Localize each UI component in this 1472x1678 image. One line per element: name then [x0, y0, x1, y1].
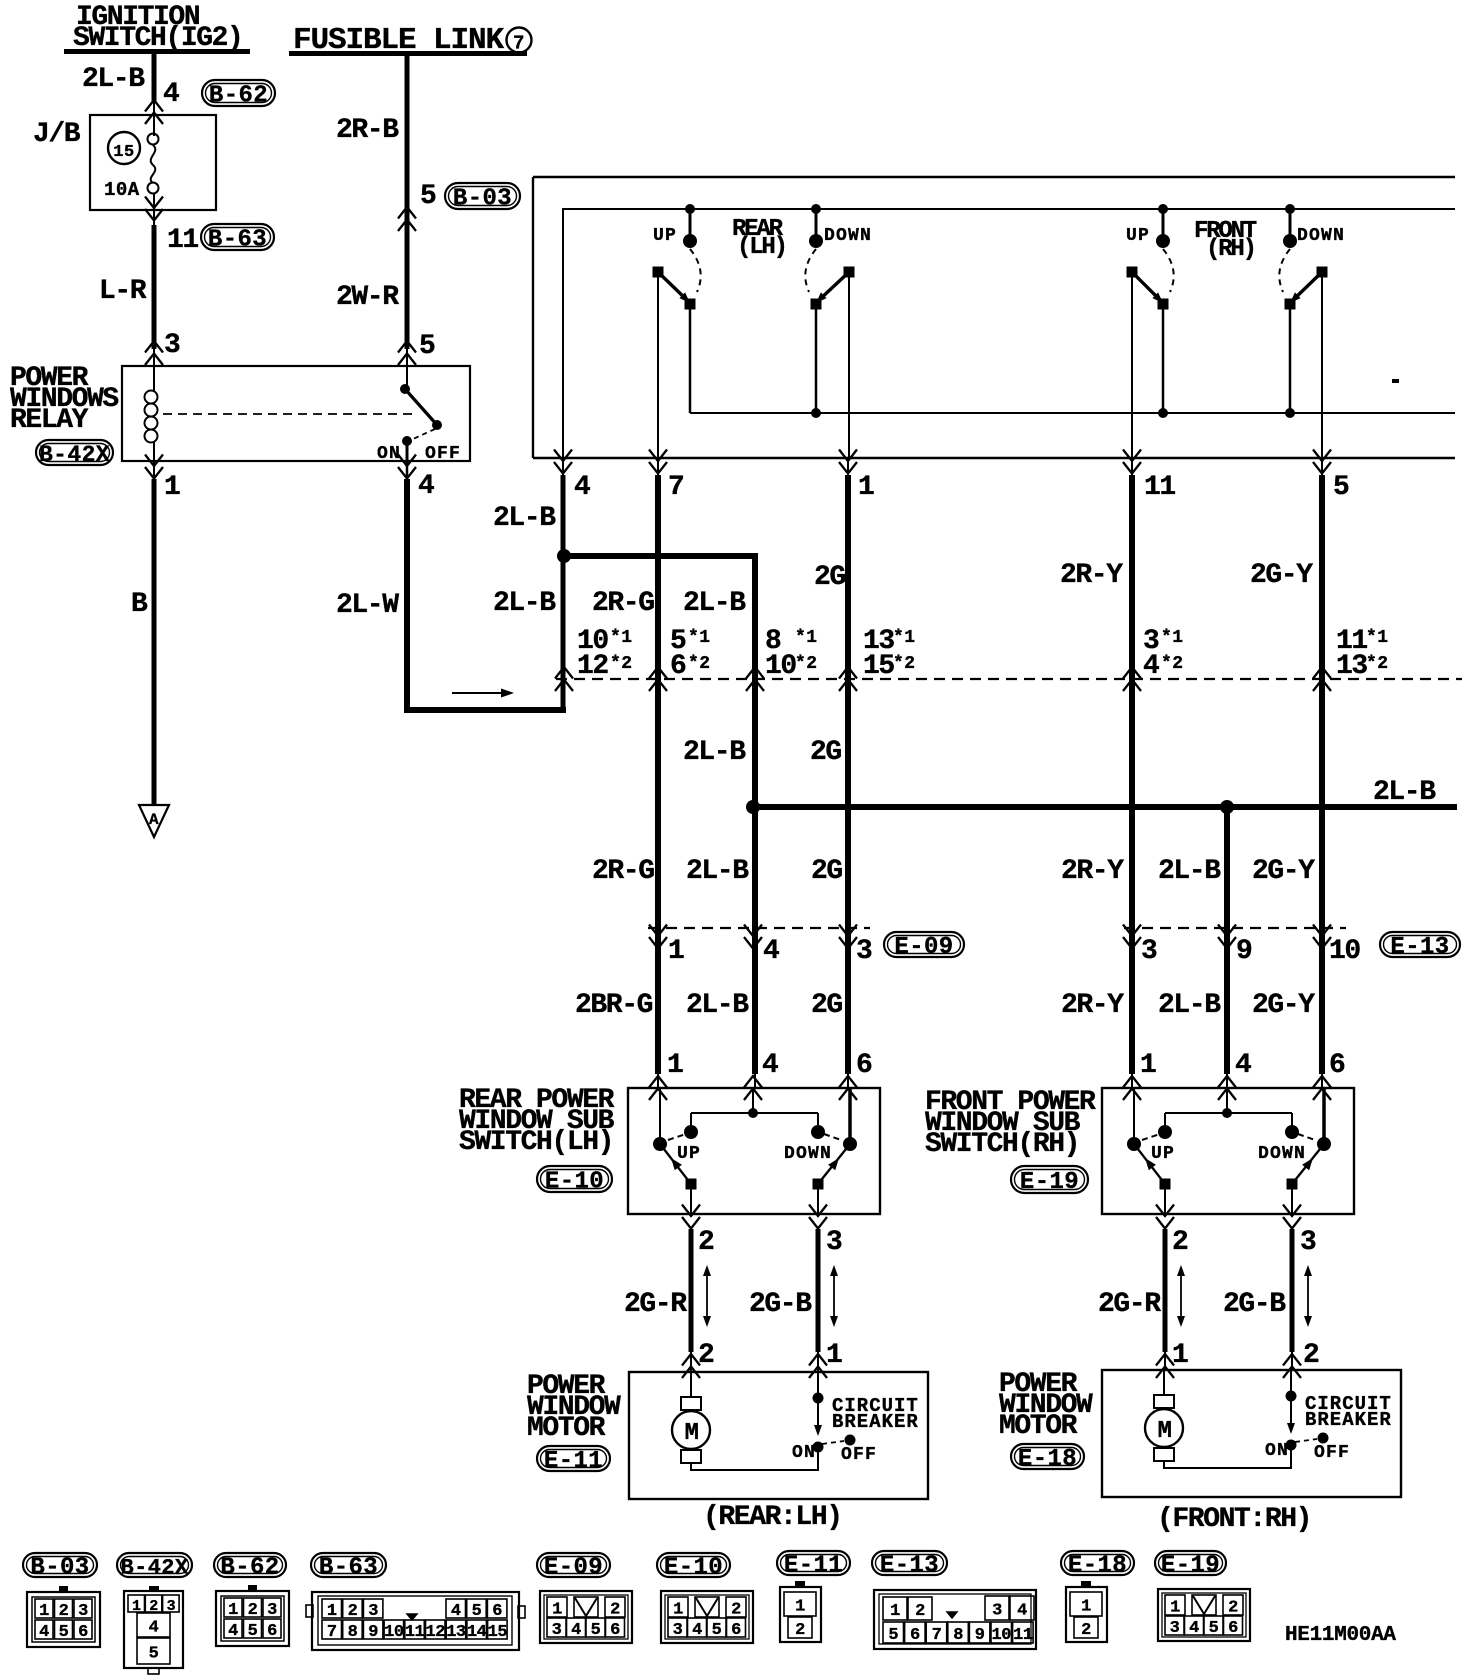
svg-text:15: 15: [863, 651, 894, 682]
svg-text:L-R: L-R: [99, 276, 147, 307]
svg-text:15: 15: [488, 1623, 508, 1642]
svg-text:6: 6: [1228, 1619, 1238, 1638]
svg-text:MOTOR: MOTOR: [999, 1411, 1078, 1442]
svg-text:5: 5: [59, 1623, 69, 1642]
svg-text:5: 5: [1333, 472, 1349, 503]
svg-text:2G: 2G: [811, 990, 842, 1021]
svg-text:E-18: E-18: [1068, 1553, 1127, 1580]
svg-text:1: 1: [826, 1340, 842, 1371]
svg-text:6: 6: [910, 1626, 920, 1645]
svg-text:1: 1: [668, 936, 684, 967]
svg-text:2R-G: 2R-G: [592, 856, 654, 887]
svg-text:6: 6: [1329, 1050, 1345, 1081]
svg-text:4: 4: [228, 1622, 238, 1641]
svg-text:13: 13: [1336, 651, 1367, 682]
svg-text:(RH): (RH): [1206, 236, 1255, 263]
svg-text:6: 6: [78, 1623, 88, 1642]
svg-text:2: 2: [1303, 1340, 1319, 1371]
svg-text:OFF: OFF: [425, 444, 461, 464]
svg-text:2G-Y: 2G-Y: [1250, 560, 1313, 591]
svg-text:*2: *2: [1366, 654, 1389, 674]
svg-text:SWITCH(LH): SWITCH(LH): [459, 1127, 613, 1158]
svg-text:2: 2: [610, 1601, 620, 1620]
svg-text:*2: *2: [1161, 654, 1184, 674]
svg-text:*2: *2: [893, 654, 916, 674]
svg-text:2: 2: [698, 1340, 714, 1371]
svg-text:2L-B: 2L-B: [686, 856, 749, 887]
svg-text:ON: ON: [1265, 1441, 1289, 1461]
svg-text:2W-R: 2W-R: [336, 282, 399, 313]
svg-text:DOWN: DOWN: [824, 226, 872, 246]
svg-text:*1: *1: [893, 628, 916, 648]
svg-text:2G: 2G: [811, 856, 842, 887]
svg-text:*1: *1: [795, 628, 818, 648]
svg-text:3: 3: [673, 1621, 683, 1640]
svg-text:1: 1: [39, 1602, 49, 1621]
svg-text:7: 7: [327, 1623, 337, 1642]
svg-text:4: 4: [571, 1621, 581, 1640]
svg-text:RELAY: RELAY: [10, 405, 89, 436]
svg-text:6: 6: [492, 1602, 502, 1621]
svg-text:10: 10: [765, 651, 796, 682]
svg-text:E-19: E-19: [1020, 1169, 1079, 1196]
svg-text:BREAKER: BREAKER: [832, 1411, 919, 1433]
svg-text:12: 12: [426, 1623, 446, 1642]
svg-text:2R-Y: 2R-Y: [1061, 990, 1124, 1021]
svg-text:(LH): (LH): [737, 234, 786, 261]
svg-text:3: 3: [78, 1602, 88, 1621]
svg-text:5: 5: [248, 1622, 258, 1641]
svg-text:3: 3: [826, 1227, 842, 1258]
svg-text:B-03: B-03: [30, 1555, 89, 1582]
svg-text:5: 5: [472, 1602, 482, 1621]
svg-text:4: 4: [692, 1621, 702, 1640]
svg-text:E-18: E-18: [1018, 1446, 1077, 1473]
svg-text:9: 9: [1236, 936, 1252, 967]
svg-text:*1: *1: [610, 628, 633, 648]
svg-text:B-63: B-63: [208, 227, 267, 254]
svg-text:E-19: E-19: [1161, 1553, 1220, 1580]
svg-text:B-62: B-62: [209, 83, 268, 110]
svg-text:UP: UP: [653, 226, 677, 246]
svg-text:2L-B: 2L-B: [82, 64, 145, 95]
svg-text:5: 5: [149, 1645, 159, 1664]
svg-text:4: 4: [39, 1623, 49, 1642]
svg-text:3: 3: [267, 1601, 277, 1620]
svg-text:4: 4: [1017, 1602, 1027, 1621]
svg-text:2R-Y: 2R-Y: [1061, 856, 1124, 887]
svg-text:1: 1: [228, 1601, 238, 1620]
svg-text:2L-B: 2L-B: [493, 503, 556, 534]
svg-text:2: 2: [248, 1601, 258, 1620]
svg-text:(REAR:LH): (REAR:LH): [703, 1502, 842, 1533]
svg-text:J/B: J/B: [33, 119, 81, 150]
svg-text:HE11M00AA: HE11M00AA: [1285, 1624, 1396, 1647]
svg-text:10: 10: [384, 1623, 404, 1642]
svg-text:DOWN: DOWN: [784, 1144, 832, 1164]
svg-text:4: 4: [1235, 1050, 1251, 1081]
svg-text:UP: UP: [1126, 226, 1150, 246]
svg-text:5: 5: [591, 1621, 601, 1640]
svg-text:5: 5: [888, 1626, 898, 1645]
svg-text:3: 3: [992, 1602, 1002, 1621]
svg-text:UP: UP: [1151, 1144, 1175, 1164]
svg-text:1: 1: [858, 472, 874, 503]
svg-text:3: 3: [1170, 1619, 1180, 1638]
svg-text:B: B: [131, 589, 148, 620]
svg-text:B-42X: B-42X: [39, 442, 110, 468]
svg-text:2G-Y: 2G-Y: [1252, 990, 1315, 1021]
svg-text:11: 11: [405, 1623, 425, 1642]
svg-text:10: 10: [992, 1626, 1012, 1645]
svg-text:2: 2: [59, 1602, 69, 1621]
svg-text:2: 2: [795, 1621, 805, 1640]
svg-text:4: 4: [763, 936, 779, 967]
svg-text:4: 4: [574, 472, 590, 503]
svg-text:2: 2: [915, 1602, 925, 1621]
svg-text:2BR-G: 2BR-G: [575, 990, 653, 1021]
svg-text:B-63: B-63: [319, 1555, 378, 1582]
svg-text:2G-R: 2G-R: [624, 1289, 687, 1320]
svg-text:4: 4: [762, 1050, 778, 1081]
svg-text:ON: ON: [377, 444, 401, 464]
svg-text:*1: *1: [688, 628, 711, 648]
svg-text:E-09: E-09: [894, 934, 953, 961]
svg-text:6: 6: [267, 1622, 277, 1641]
svg-text:10A: 10A: [104, 179, 140, 201]
svg-text:*2: *2: [688, 654, 711, 674]
svg-text:4: 4: [1189, 1619, 1199, 1638]
svg-text:2R-G: 2R-G: [592, 588, 654, 619]
svg-text:3: 3: [1300, 1227, 1316, 1258]
svg-text:5: 5: [1209, 1619, 1219, 1638]
svg-text:8: 8: [953, 1626, 963, 1645]
svg-text:2: 2: [698, 1227, 714, 1258]
svg-text:11: 11: [167, 225, 198, 256]
svg-text:4: 4: [451, 1602, 461, 1621]
svg-text:B-42X: B-42X: [120, 1556, 188, 1581]
svg-text:5: 5: [712, 1621, 722, 1640]
svg-text:2L-B: 2L-B: [493, 588, 556, 619]
svg-text:15: 15: [113, 143, 134, 162]
svg-text:*1: *1: [1161, 628, 1184, 648]
svg-text:6: 6: [670, 651, 686, 682]
svg-text:4: 4: [418, 471, 434, 502]
svg-text:2: 2: [1081, 1621, 1091, 1640]
svg-text:3: 3: [552, 1621, 562, 1640]
svg-text:2G: 2G: [814, 562, 845, 593]
svg-text:3: 3: [856, 936, 872, 967]
svg-text:1: 1: [1081, 1598, 1091, 1617]
svg-text:1: 1: [1140, 1050, 1156, 1081]
svg-text:OFF: OFF: [841, 1445, 877, 1465]
svg-text:1: 1: [327, 1602, 337, 1621]
svg-text:2G-R: 2G-R: [1098, 1289, 1161, 1320]
svg-text:E-10: E-10: [664, 1555, 723, 1582]
svg-text:9: 9: [975, 1626, 985, 1645]
svg-text:11: 11: [1144, 472, 1175, 503]
svg-text:2: 2: [348, 1602, 358, 1621]
svg-text:E-13: E-13: [1390, 934, 1449, 961]
svg-text:BREAKER: BREAKER: [1305, 1409, 1392, 1431]
svg-text:DOWN: DOWN: [1297, 226, 1345, 246]
svg-text:6: 6: [610, 1621, 620, 1640]
svg-text:2L-B: 2L-B: [1158, 990, 1221, 1021]
svg-text:E-13: E-13: [880, 1553, 939, 1580]
svg-text:1: 1: [552, 1601, 562, 1620]
svg-text:10: 10: [1329, 936, 1360, 967]
svg-text:2: 2: [1172, 1227, 1188, 1258]
svg-text:2G-Y: 2G-Y: [1252, 856, 1315, 887]
svg-text:8: 8: [348, 1623, 358, 1642]
svg-text:B-62: B-62: [220, 1555, 279, 1582]
svg-text:7: 7: [668, 472, 683, 503]
svg-text:2L-B: 2L-B: [1158, 856, 1221, 887]
svg-text:13: 13: [446, 1623, 466, 1642]
svg-text:2G-B: 2G-B: [749, 1289, 812, 1320]
svg-text:3: 3: [164, 330, 180, 361]
svg-text:2: 2: [731, 1601, 741, 1620]
svg-text:2L-W: 2L-W: [336, 590, 399, 621]
svg-text:2R-Y: 2R-Y: [1060, 560, 1123, 591]
svg-text:6: 6: [731, 1621, 741, 1640]
svg-text:*1: *1: [1366, 628, 1389, 648]
svg-text:2L-B: 2L-B: [683, 737, 746, 768]
svg-text:E-11: E-11: [544, 1448, 603, 1475]
svg-text:2L-B: 2L-B: [683, 588, 746, 619]
svg-text:MOTOR: MOTOR: [527, 1413, 606, 1444]
svg-text:1: 1: [667, 1050, 683, 1081]
svg-text:2: 2: [1228, 1599, 1238, 1618]
svg-text:SWITCH(RH): SWITCH(RH): [925, 1129, 1079, 1160]
svg-text:2R-B: 2R-B: [336, 115, 399, 146]
svg-text:3: 3: [1141, 936, 1157, 967]
svg-text:DOWN: DOWN: [1258, 1144, 1306, 1164]
svg-text:M: M: [684, 1420, 698, 1447]
svg-text:1: 1: [673, 1601, 683, 1620]
svg-text:1: 1: [1172, 1340, 1188, 1371]
svg-text:2G-B: 2G-B: [1223, 1289, 1286, 1320]
svg-text:E-09: E-09: [544, 1555, 603, 1582]
svg-text:*2: *2: [610, 654, 633, 674]
svg-text:(FRONT:RH): (FRONT:RH): [1157, 1504, 1311, 1535]
svg-text:1: 1: [795, 1598, 805, 1617]
svg-text:11: 11: [1013, 1626, 1033, 1645]
svg-text:6: 6: [856, 1050, 872, 1081]
svg-text:1: 1: [1170, 1599, 1180, 1618]
svg-text:B-03: B-03: [453, 186, 512, 213]
svg-text:2G: 2G: [810, 737, 841, 768]
svg-text:4: 4: [163, 79, 179, 110]
svg-text:7: 7: [932, 1626, 942, 1645]
svg-text:1: 1: [164, 472, 180, 503]
svg-text:E-10: E-10: [545, 1169, 604, 1196]
svg-text:12: 12: [577, 651, 608, 682]
svg-text:ON: ON: [792, 1443, 816, 1463]
svg-text:A: A: [149, 811, 159, 829]
svg-text:OFF: OFF: [1314, 1443, 1350, 1463]
svg-text:UP: UP: [677, 1144, 701, 1164]
svg-text:14: 14: [467, 1623, 487, 1642]
svg-text:5: 5: [420, 181, 436, 212]
svg-text:9: 9: [368, 1623, 378, 1642]
svg-text:3: 3: [368, 1602, 378, 1621]
svg-text:1: 1: [890, 1602, 900, 1621]
svg-text:4: 4: [1143, 651, 1159, 682]
svg-text:4: 4: [149, 1619, 159, 1638]
svg-text:*2: *2: [795, 654, 818, 674]
svg-text:E-11: E-11: [784, 1553, 843, 1580]
svg-text:2L-B: 2L-B: [686, 990, 749, 1021]
svg-text:5: 5: [419, 331, 435, 362]
svg-text:M: M: [1157, 1418, 1171, 1445]
svg-text:2L-B: 2L-B: [1373, 777, 1436, 808]
